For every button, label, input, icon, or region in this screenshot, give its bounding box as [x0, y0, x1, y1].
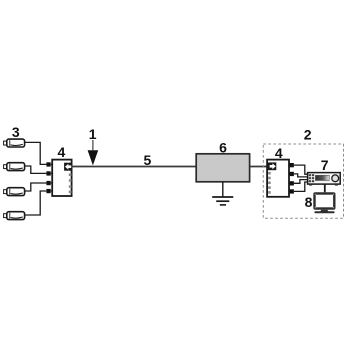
svg-text:8: 8 [305, 194, 313, 210]
pin 3 (right block) [289, 181, 294, 185]
label 7 [321, 157, 329, 173]
label 3 [12, 124, 20, 140]
svg-text:7: 7 [321, 157, 329, 173]
ground stem [222, 182, 224, 197]
wire J1 to pin1 [25, 142, 47, 164]
svg-text:4: 4 [275, 145, 283, 161]
label 8 [305, 194, 313, 210]
pin 4 (left block) [46, 189, 52, 193]
label 5 [144, 152, 152, 168]
label 4 (left block) [58, 144, 66, 160]
arrow 1 leader line [92, 140, 94, 150]
arrow 1 head [88, 150, 99, 165]
label 4 (right block) [275, 145, 283, 161]
connector J4 [4, 212, 25, 220]
monitor 8 [313, 192, 335, 213]
terminal block U1 (left) [52, 160, 72, 196]
wire pin2 to device 7 [294, 174, 308, 177]
wire J2 to pin2 [25, 166, 47, 173]
wire J4 to pin4 [25, 191, 47, 215]
ground symbol [212, 197, 233, 205]
pin 1 (right block) [289, 163, 294, 167]
label 1 [89, 126, 97, 142]
wire pin1 to device 7 [294, 165, 308, 174]
connector J1 [4, 139, 25, 147]
svg-text:2: 2 [304, 127, 312, 143]
wire pin3 to device 7 [294, 180, 308, 184]
wire 5 (block to box 6) [72, 166, 197, 168]
pin 1 (left block) [46, 162, 52, 166]
label 2 [304, 127, 312, 143]
label 6 [219, 139, 227, 155]
wire device 7 to monitor 8 [324, 184, 326, 192]
wire pin4 to device 7 [294, 182, 308, 191]
wire box 6 to right block [250, 166, 269, 168]
pin 2 (right block) [289, 172, 294, 176]
svg-text:4: 4 [58, 144, 66, 160]
terminal block U2 (right) [267, 160, 289, 197]
wire J3 to pin3 [25, 183, 47, 191]
svg-text:1: 1 [89, 126, 97, 142]
device 7 [308, 173, 341, 186]
connector J3 [4, 188, 25, 196]
pin 3 (left block) [46, 181, 52, 185]
pin 4 (right block) [289, 189, 294, 193]
pin 2 (left block) [46, 171, 52, 175]
dashed box 2 [263, 144, 343, 218]
svg-text:5: 5 [144, 152, 152, 168]
svg-text:6: 6 [219, 139, 227, 155]
connector J2 [4, 163, 25, 171]
box 6 [196, 154, 249, 182]
svg-text:3: 3 [12, 124, 20, 140]
